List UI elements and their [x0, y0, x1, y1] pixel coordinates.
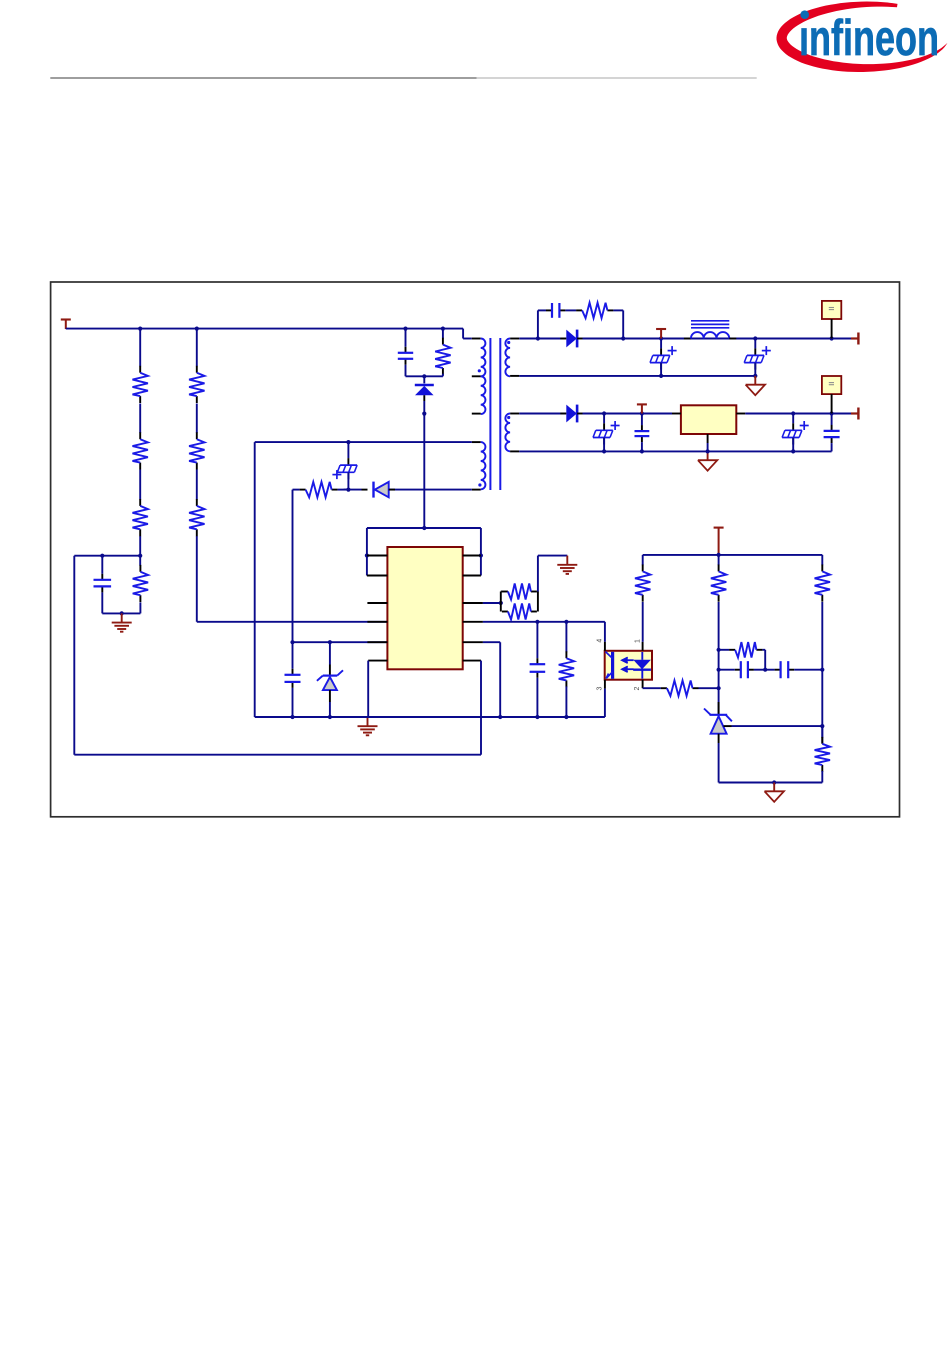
wire clamp to drain node	[422, 401, 426, 416]
wire gate return	[538, 556, 567, 592]
wire sense gnd link	[102, 611, 140, 615]
diode D5 output2 rectifier	[560, 405, 583, 423]
resistor R9 vcc	[293, 482, 349, 497]
wire sec1 mid	[583, 336, 852, 340]
capacitor C10	[635, 414, 650, 452]
resistor R17 compensation	[719, 642, 766, 670]
wire chain2 drop	[197, 329, 388, 622]
regulator U4	[672, 405, 745, 443]
wire snubber bottom	[406, 374, 443, 378]
wire top rail	[66, 329, 472, 339]
capacitor C13 compensation	[719, 661, 768, 678]
resistor R4	[189, 366, 204, 403]
wire vcc node	[346, 488, 350, 492]
resistor R1	[133, 366, 148, 403]
wire drain vertical	[423, 414, 425, 528]
Infineon logo i-dot	[800, 10, 809, 19]
IC U1 controller	[387, 547, 462, 669]
resistor R11 gate	[502, 592, 538, 620]
header rule right segment	[477, 77, 757, 79]
wire sec2 mid	[583, 411, 673, 415]
transformer T1 secondary winding 2	[505, 414, 519, 452]
resistor R8 snubber	[435, 329, 450, 377]
transformer T1 primary tap pin	[472, 376, 486, 414]
connector J3 label box	[822, 376, 841, 394]
wire drain top loop	[365, 526, 483, 576]
IC U1 left pins	[367, 556, 388, 661]
transformer T1 aux dot	[478, 483, 481, 486]
svg-text:3: 3	[596, 686, 603, 690]
inductor L1	[684, 321, 736, 339]
capacitor C2 snubber	[398, 329, 413, 377]
wire TL431 ref	[724, 724, 825, 728]
resistor R7	[133, 556, 148, 614]
svg-text:2: 2	[634, 686, 641, 690]
wire sec1 snubber riser	[538, 310, 546, 338]
resistor R12	[559, 622, 574, 717]
ground GND5 reg	[698, 451, 717, 470]
capacitor C8 out filter	[744, 339, 771, 376]
resistor R19 divider lower	[815, 737, 830, 783]
wire fb rail	[643, 553, 823, 557]
wire to opto pin4	[604, 622, 606, 642]
wire fb bottom rail	[719, 780, 823, 784]
diode D4 output rectifier	[560, 330, 583, 348]
optocoupler pin3	[604, 680, 606, 717]
transformer T1 secondary2 dot	[507, 416, 510, 419]
transformer T1 primary lower pin	[472, 413, 481, 415]
terminal T5 vout2	[851, 408, 858, 420]
wire reg gnd	[707, 443, 709, 451]
node rail junctions	[138, 327, 445, 331]
node sense junctions	[100, 554, 142, 558]
resistor R13 sec snubber	[576, 303, 623, 339]
wire reg output	[745, 411, 851, 415]
connector J3 stem	[831, 394, 833, 413]
wire aux return drop	[254, 442, 256, 717]
transformer T1 core	[490, 338, 500, 490]
resistor R15 divider upper	[711, 555, 726, 650]
optocoupler pin labels	[596, 639, 641, 691]
capacitor C11 out2 bulk	[782, 414, 809, 452]
wire fb right column	[821, 670, 823, 743]
resistor R6	[189, 499, 204, 536]
wire primary ground rail	[255, 715, 605, 719]
terminal T6 fb supply	[714, 528, 724, 555]
capacitor C9 bulk2	[593, 414, 620, 452]
wire TL431 anode	[718, 743, 720, 783]
wire sense node	[74, 556, 140, 755]
capacitor C6 sec snubber	[546, 303, 576, 318]
ground GND3 gate	[557, 556, 577, 574]
ground GND2 primary	[358, 717, 378, 735]
diode D1 clamp	[415, 376, 434, 401]
ground GND1	[112, 613, 132, 631]
connector J2 stem	[831, 319, 833, 339]
wire pin8 loop	[74, 661, 481, 755]
wire pin6 to ground	[367, 661, 369, 717]
optocoupler pin4	[604, 642, 606, 651]
wire fb node column	[717, 648, 721, 715]
transformer T1 secondary1 dot	[507, 341, 510, 344]
header rule left segment	[50, 77, 476, 79]
svg-text:ınfineon: ınfineon	[799, 10, 939, 66]
IC U1 right pins	[463, 556, 483, 661]
terminal T4 reg input	[637, 404, 647, 413]
Infineon logo red swoosh	[776, 0, 948, 74]
wire vcc sense drop	[483, 642, 500, 717]
transformer T1 aux winding	[472, 442, 486, 490]
resistor R16 pullup	[815, 555, 830, 670]
wire sec2 top	[519, 413, 566, 415]
capacitor C12 out2	[824, 414, 840, 452]
capacitor C7 bulk	[650, 339, 677, 376]
optocoupler pin2	[642, 680, 644, 689]
resistor R3	[133, 499, 148, 536]
wire pin CS row	[483, 620, 605, 624]
capacitor C5	[530, 622, 546, 717]
wire gate	[483, 601, 503, 605]
connector J2 label box	[822, 301, 841, 319]
diode D2 aux rectifier	[344, 482, 472, 498]
wire sec2 bottom	[519, 449, 831, 453]
terminal T3 vout1	[851, 333, 858, 345]
optocoupler pin1	[642, 642, 644, 651]
TL431 U3	[704, 702, 732, 743]
wire aux top	[255, 440, 472, 444]
resistor R5	[189, 432, 204, 469]
Infineon logo wordmark	[799, 10, 939, 66]
wire sec1 bottom	[519, 374, 757, 378]
wire vcc drop to IC	[290, 490, 387, 645]
resistor R14 opto bias	[635, 555, 650, 642]
resistor R18 opto series	[643, 681, 719, 696]
transformer T1 secondary winding 1	[505, 339, 519, 377]
schematic frame	[51, 282, 900, 817]
transformer T1 primary dot	[478, 369, 481, 372]
svg-text:4: 4	[597, 639, 604, 643]
wire sec1 top	[519, 336, 566, 340]
terminal T2 vout sense	[656, 329, 666, 339]
terminal J1 line input	[61, 320, 71, 330]
zener D3 vcc	[317, 642, 343, 717]
optocoupler U2	[605, 651, 652, 680]
capacitor C14 compensation	[765, 661, 824, 678]
capacitor C1	[94, 556, 112, 614]
resistor R2	[133, 432, 148, 469]
transformer T1 primary winding upper	[472, 339, 486, 377]
wire chain1 drop	[139, 329, 141, 556]
ground GND6 fb	[765, 783, 784, 802]
resistor R10 gate	[501, 584, 538, 612]
capacitor C4 vcc filter	[285, 642, 301, 717]
svg-text:1: 1	[634, 639, 641, 643]
capacitor C3 vcc	[332, 442, 357, 490]
ground GND4 sec1	[746, 376, 765, 395]
